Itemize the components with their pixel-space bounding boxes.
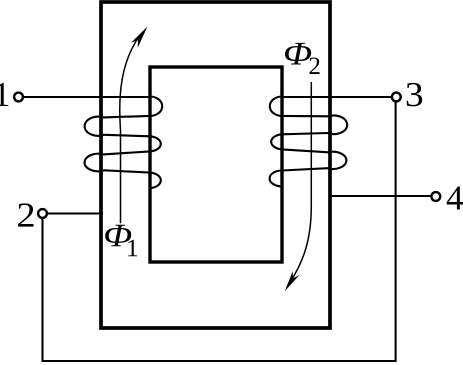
flux Φ2 line with curve <box>291 82 312 282</box>
label 1 <box>0 83 8 106</box>
wire: terminal 2 to core <box>47 212 103 214</box>
label 4 <box>447 186 463 209</box>
core window (inner edge) <box>150 67 282 262</box>
wire: terminal 3 to winding W2 <box>282 96 392 98</box>
wire: terminal 2 down, along bottom, up to terminal 3 <box>43 102 396 362</box>
label 2 <box>18 203 33 226</box>
flux Φ2 arrowhead <box>285 271 299 291</box>
flux Φ1 arrowhead <box>131 27 148 48</box>
label Φ1 <box>105 225 131 247</box>
core outer edge <box>101 2 330 328</box>
winding W1 (left leg) <box>85 97 163 189</box>
terminal 2 circle <box>38 209 47 218</box>
winding W2 (right leg) <box>270 97 348 187</box>
label Φ2 <box>285 43 311 65</box>
terminal 4 circle <box>431 192 440 201</box>
terminal 3 circle <box>392 93 401 102</box>
wire: terminal 4 to core <box>330 195 431 197</box>
terminal 1 circle <box>14 93 23 102</box>
label 3 <box>407 83 422 107</box>
flux Φ1 line with curve <box>120 36 140 223</box>
wire: terminal 1 to winding W1 <box>23 96 150 98</box>
